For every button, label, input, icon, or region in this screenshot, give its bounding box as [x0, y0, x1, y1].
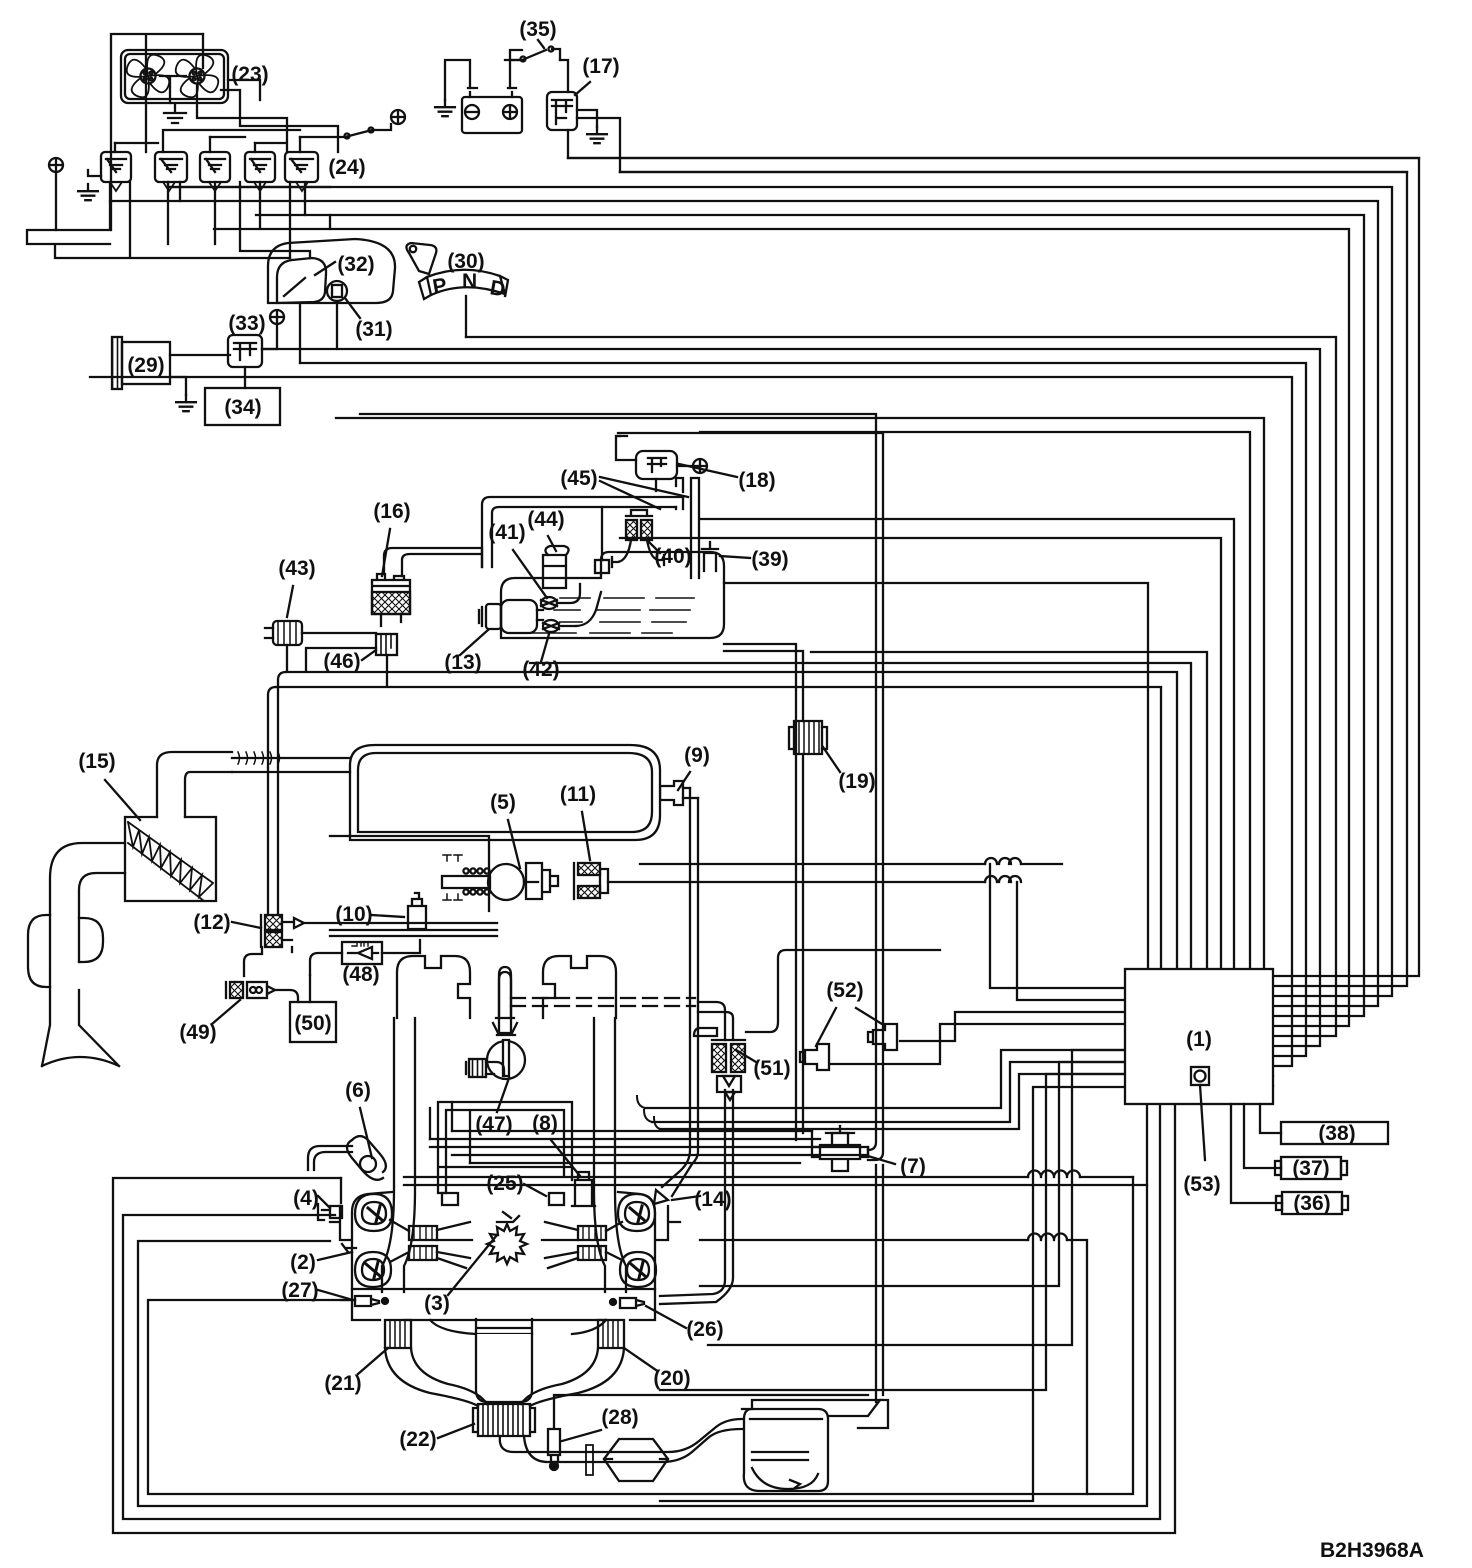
- wire relay tops to fan switch bus: [115, 130, 300, 152]
- condenser (33): [228, 335, 262, 367]
- svg-text:(18): (18): [738, 469, 775, 492]
- svg-text:(51): (51): [753, 1057, 790, 1080]
- wire (29) wiring: [170, 355, 230, 395]
- leader line (6): [360, 1108, 372, 1158]
- wire harness-right-10: [90, 377, 1292, 1066]
- diagnostic connector (53) symbol: [1191, 1067, 1209, 1085]
- wire harness-right-11: [336, 418, 1273, 1076]
- svg-text:(46): (46): [323, 650, 360, 673]
- leader line (52) a: [816, 1008, 836, 1046]
- canister (16): [372, 592, 410, 614]
- svg-text:(34): (34): [224, 396, 261, 419]
- leader line (12): [232, 922, 261, 928]
- knock sensor (4): [318, 1178, 342, 1220]
- svg-text:(33): (33): [228, 312, 265, 335]
- drain valve (46): [376, 634, 397, 655]
- svg-text:(9): (9): [684, 744, 710, 767]
- leader line (45)b: [600, 481, 660, 509]
- intake manifold plenum left half: [397, 956, 470, 1018]
- wire harness-bottom-4: [148, 1177, 1133, 1494]
- leader line (17): [575, 82, 590, 95]
- leader line (53): [1200, 1085, 1205, 1160]
- ignition coil pack right: [578, 1226, 606, 1260]
- svg-text:(24): (24): [328, 156, 365, 179]
- rollover valve (44): [543, 546, 569, 588]
- svg-text:(41): (41): [488, 521, 525, 544]
- wire (33) wiring: [245, 324, 277, 388]
- wire harness-top-1: [724, 583, 1148, 969]
- wire throttle-ecu-1: [640, 864, 1125, 988]
- small valve hanging on vent pipe: [595, 560, 609, 573]
- vent pipe vertical right: [691, 478, 699, 578]
- connector (37): [1281, 1157, 1341, 1179]
- svg-text:(11): (11): [560, 783, 596, 806]
- svg-text:(13): (13): [444, 651, 481, 674]
- exhaust resonator bulb: [28, 915, 103, 987]
- wire 52-pipes right-up: [645, 1050, 1125, 1129]
- fuel pump (13): [501, 600, 537, 633]
- relay (24)-1: [101, 152, 131, 182]
- leader line (39): [720, 556, 750, 558]
- right intake runner: [594, 1018, 626, 1292]
- leader line (45): [600, 477, 688, 497]
- wire (51) riser to EGR pipe: [698, 1002, 733, 1040]
- pressure sources switching solenoid (18): [636, 451, 677, 479]
- leader line (9): [678, 772, 690, 790]
- wire ecu-leftdown-1: [708, 1050, 1125, 1345]
- wire relay left feed: [56, 170, 101, 230]
- wire harness-right-6: [330, 229, 1349, 1026]
- wire ecu-left from (52) upper: [900, 1012, 1125, 1041]
- camshaft sprocket (3): [487, 1224, 527, 1264]
- wire (31)(32) outputs: [300, 301, 337, 363]
- battery-positive symbol 33 plus: [270, 310, 284, 324]
- ground 29 ground: [176, 395, 196, 411]
- leader line (20): [624, 1348, 656, 1370]
- wire pipe (7) down to rear canister: [876, 1165, 883, 1402]
- intake chamber: [350, 745, 660, 840]
- leader line (40): [648, 541, 660, 553]
- pressure exchange valve (7): [812, 1133, 868, 1171]
- wire fan2 to relay5: [197, 34, 287, 152]
- noise filter (34): [205, 388, 280, 425]
- svg-text:(35): (35): [519, 18, 556, 41]
- wire left loop to manifold: [244, 947, 262, 976]
- wire harness-top-2: [1160, 688, 1162, 969]
- leader line (19): [823, 747, 840, 772]
- wire harness-top-3: [1176, 674, 1178, 969]
- cylinder head right: [618, 1192, 680, 1289]
- svg-text:(48): (48): [342, 963, 379, 986]
- leader line (10): [372, 915, 404, 917]
- wire ecu-leftdown-3: [660, 1074, 1125, 1390]
- wire harness-top-7: [700, 519, 1234, 969]
- battery-positive symbol battery-feed left: [49, 158, 63, 172]
- leader line (2): [318, 1252, 352, 1260]
- svg-text:(47): (47): [475, 1113, 512, 1136]
- left intake runner: [382, 1018, 415, 1292]
- warning lamp (31): [327, 281, 347, 301]
- svg-text:(1): (1): [1186, 1028, 1212, 1051]
- vapor valves (40): [626, 520, 637, 540]
- leader line (28): [562, 1430, 601, 1441]
- distributor cap right-lower: [620, 1252, 656, 1287]
- battery-positive symbol 18 plus: [693, 459, 707, 473]
- purge control solenoid valve (51): [712, 1044, 726, 1072]
- leader line (43): [287, 586, 293, 617]
- wire engine-bus-2: [404, 1184, 1147, 1186]
- check valve (41): [541, 597, 557, 609]
- wire harness-bottom-3: [138, 1104, 1147, 1506]
- wire (12) risers to buses: [268, 672, 286, 915]
- wire exhaust pipe from (22) to rear: [500, 1419, 742, 1462]
- leader line (22): [438, 1424, 474, 1438]
- fuel vent pipe loop: [482, 497, 683, 567]
- svg-text:(16): (16): [373, 500, 410, 523]
- wire engine harness bus lines: [430, 1131, 868, 1163]
- svg-text:(26): (26): [686, 1318, 723, 1341]
- wire (12) connections: [292, 923, 497, 952]
- battery: [462, 97, 522, 133]
- wire (51) flag riser: [746, 950, 940, 1032]
- wire harness-right-12: [700, 432, 1273, 1086]
- throttle position sensor linkage: [526, 863, 558, 899]
- wire throttle-ecu-2: [608, 882, 1125, 1000]
- leader line (44): [548, 536, 556, 551]
- ignition coil pack left: [409, 1226, 437, 1260]
- wire canister loop to bus: [276, 645, 1177, 687]
- mount foot (25): [549, 1193, 564, 1205]
- wire harness-bottom-2: [123, 1104, 1160, 1519]
- svg-text:(50): (50): [294, 1012, 331, 1035]
- spark plug wire sensor (6): [360, 1156, 376, 1172]
- svg-text:(43): (43): [278, 557, 315, 580]
- check valve (48): [342, 942, 382, 964]
- wire harness-bottom-1: [113, 1104, 1175, 1533]
- wire (48) loop: [310, 940, 420, 975]
- exhaust resonator (20): [598, 1320, 624, 1348]
- wire fuel-pipe-B from (18) area down to valve (7): [360, 414, 883, 1160]
- check valve (42): [543, 620, 559, 632]
- svg-text:(12): (12): [193, 911, 230, 934]
- oxygen sensor (27): [355, 1296, 379, 1306]
- ground battery ground: [435, 100, 455, 116]
- distributor cap left-upper: [355, 1194, 392, 1231]
- wire ECU bottom to (38): [1260, 1104, 1281, 1133]
- leader line (41): [513, 550, 547, 598]
- wire harness-right-5: [256, 215, 1364, 1016]
- hose (6) loop left: [308, 1146, 352, 1170]
- wire harness-right-1: [568, 158, 1419, 976]
- intake manifold plenum right half: [543, 956, 616, 1018]
- svg-text:(23): (23): [231, 63, 268, 86]
- rear muffler hexagon: [604, 1439, 668, 1481]
- wire (17) wiring: [568, 110, 620, 172]
- spark plug wires right: [542, 1222, 622, 1268]
- engine crankcase: [352, 1289, 655, 1320]
- wire (9) into EGR pipe: [683, 788, 698, 798]
- relay (24)-3: [200, 152, 230, 182]
- wire ecu-leftdown-4: [660, 1087, 1125, 1501]
- oxygen sensor (26): [620, 1298, 644, 1308]
- leader line (18): [679, 464, 737, 477]
- radiator fan assembly (23): [121, 50, 228, 103]
- lower collector box: [438, 1102, 572, 1193]
- wire harness-right-9: [300, 363, 1306, 1056]
- battery-positive symbol ign-feed: [391, 110, 405, 124]
- wire switch to (17): [510, 50, 568, 92]
- svg-text:(27): (27): [281, 1279, 318, 1302]
- leader line (16): [382, 529, 390, 576]
- relay (24)-4: [245, 152, 275, 182]
- leader line (13): [460, 630, 488, 655]
- leader line (52) b: [856, 1008, 882, 1024]
- distributor cap left-lower: [355, 1252, 391, 1287]
- in-tank pipes: [537, 584, 580, 626]
- svg-text:(31): (31): [355, 318, 392, 341]
- svg-text:(7): (7): [900, 1155, 926, 1178]
- wire engine-bus-1: [404, 1176, 1133, 1178]
- leader line (5): [508, 820, 520, 868]
- leader line (21): [358, 1348, 388, 1374]
- svg-text:(30): (30): [447, 250, 484, 273]
- svg-text:(15): (15): [78, 750, 115, 773]
- leader line (11): [582, 812, 590, 860]
- air cleaner (15): [157, 752, 232, 817]
- wire (40) pipes: [612, 540, 664, 567]
- chamber base plate: [330, 836, 497, 936]
- leader line (26): [646, 1306, 686, 1328]
- exhaust downpipes joining: [385, 1348, 624, 1406]
- leader line (42): [541, 634, 549, 662]
- throttle body (5): [488, 864, 524, 900]
- cylinder head left: [330, 1192, 392, 1289]
- fuel level lines: [526, 598, 694, 633]
- radio/noise suppressor (29): [112, 337, 122, 389]
- oil filler / dipstick: [499, 967, 511, 1018]
- data link connector (38): [1281, 1122, 1388, 1144]
- leader line (31): [345, 298, 360, 318]
- leader line (46): [362, 650, 376, 660]
- svg-text:(3): (3): [424, 1292, 450, 1315]
- svg-text:N: N: [462, 270, 477, 293]
- svg-text:(32): (32): [337, 253, 374, 276]
- svg-text:(44): (44): [527, 508, 564, 531]
- ECU (1): [1125, 969, 1273, 1104]
- leader line (3): [448, 1235, 497, 1295]
- svg-text:(38): (38): [1318, 1122, 1355, 1145]
- relay (24)-2: [155, 152, 187, 182]
- leader line (32): [315, 262, 335, 275]
- pressure sensor (47): [497, 972, 515, 1035]
- ground fan ground: [164, 105, 186, 123]
- wire harness-top-6: [620, 538, 1221, 969]
- svg-text:(45): (45): [560, 467, 597, 490]
- wire harness-right-7: [466, 337, 1336, 1036]
- leader line (27): [318, 1290, 353, 1300]
- ground relay ground: [78, 184, 98, 200]
- wire harness-top-4: [530, 663, 1191, 969]
- wire line from (18) up-left: [618, 435, 620, 437]
- fuel filler vent (39): [702, 542, 718, 571]
- wire harness-right-4: [110, 201, 1378, 1006]
- coolant temp sensor (2): [342, 1244, 356, 1252]
- wire (30) output: [465, 296, 467, 337]
- wire ECU bottom to (37): [1244, 1104, 1281, 1168]
- svg-text:(29): (29): [127, 354, 164, 377]
- svg-text:(6): (6): [345, 1079, 371, 1102]
- leader line (14): [672, 1196, 700, 1200]
- EGR solenoid (49): [230, 982, 243, 998]
- leader line (47): [497, 1078, 509, 1112]
- instrument cluster (32): [268, 239, 395, 303]
- wire ecu-left from (52) lower: [831, 1024, 1125, 1064]
- wire (49)(50) plumbing: [275, 975, 310, 1002]
- svg-text:(25): (25): [486, 1172, 523, 1195]
- relay (24)-5: [285, 152, 318, 182]
- leader line (4): [318, 1196, 330, 1208]
- ground relay-17 ground: [587, 127, 607, 143]
- svg-text:(37): (37): [1292, 1157, 1329, 1180]
- svg-text:(2): (2): [290, 1251, 316, 1274]
- svg-text:(4): (4): [293, 1187, 319, 1210]
- vacuum reservoir (50): [290, 1002, 336, 1042]
- catalytic converter (22): [473, 1404, 535, 1436]
- svg-text:(36): (36): [1293, 1192, 1330, 1215]
- leader line (49): [212, 1000, 240, 1024]
- leader line (51): [736, 1050, 756, 1062]
- svg-text:(5): (5): [490, 791, 516, 814]
- svg-text:(19): (19): [838, 770, 875, 793]
- tank vent nipple (9) on intake chamber: [660, 781, 683, 805]
- svg-text:(17): (17): [582, 55, 619, 78]
- wire fuel-pipe-A (19) feed: [724, 644, 803, 1140]
- rear oxygen sensor (28): [548, 1395, 868, 1462]
- mount foot left: [442, 1193, 458, 1205]
- distributor cap right-upper: [618, 1194, 655, 1231]
- exhaust inlet snorkel: [42, 843, 125, 1066]
- fuel tank: [501, 552, 724, 638]
- relay bottom connector marks: [110, 182, 308, 191]
- wire fan box to relay row: [221, 80, 338, 152]
- svg-text:(40): (40): [654, 545, 691, 568]
- svg-text:(20): (20): [653, 1367, 690, 1390]
- svg-text:(53): (53): [1183, 1173, 1220, 1196]
- wire harness-right-3: [168, 187, 1392, 996]
- FICD solenoid (10): [408, 893, 426, 929]
- svg-text:(21): (21): [324, 1372, 361, 1395]
- wire relay interconnects: [27, 182, 330, 258]
- svg-text:(22): (22): [399, 1428, 436, 1451]
- wire harness-right-2: [620, 172, 1407, 986]
- wire vert pipe to (51): [660, 1090, 733, 1304]
- svg-text:(14): (14): [694, 1188, 731, 1211]
- leader line (8): [551, 1140, 580, 1176]
- inhibitor switch (30): [406, 243, 436, 274]
- wire fan wiring top loop: [111, 34, 203, 230]
- wire canister top pipes: [384, 548, 482, 576]
- vacuum connectors (52): [800, 1044, 829, 1070]
- leader line (15): [105, 780, 140, 820]
- wire (18) wiring: [616, 436, 693, 491]
- purge solenoid (12): [265, 915, 282, 930]
- dashed crossover line: [511, 997, 695, 999]
- wire engine-bus-3: [700, 1240, 1087, 1494]
- spark plug wires left: [390, 1220, 472, 1268]
- exhaust resonator (21): [385, 1320, 411, 1348]
- corrugated intake hose: [232, 758, 350, 772]
- wire harness-top-5: [811, 652, 1207, 969]
- wire ecu-leftdown-2: [700, 1062, 1125, 1286]
- wire harness-right-8: [262, 349, 1320, 1046]
- svg-text:(39): (39): [751, 548, 788, 571]
- idle air solenoid (11): [578, 863, 600, 875]
- connector (36): [1282, 1192, 1342, 1214]
- leader line (7): [868, 1156, 895, 1164]
- svg-text:B2H3968A: B2H3968A: [1320, 1539, 1424, 1562]
- rear catalyst canister: [742, 1409, 828, 1491]
- wire (27) stub: [341, 1299, 355, 1301]
- leader line (25): [524, 1184, 546, 1196]
- injector (8): [572, 1172, 595, 1206]
- svg-text:(52): (52): [826, 979, 863, 1002]
- purge control motor (43): [273, 621, 302, 645]
- EGR pipe (14): [662, 788, 698, 1196]
- wire battery wiring: [445, 60, 522, 100]
- fuel filter (19): [794, 721, 822, 754]
- fusible link switch: [300, 124, 391, 137]
- ignition relay (17): [547, 92, 577, 130]
- svg-text:(28): (28): [601, 1406, 638, 1429]
- wire ECU bottom to (36): [1231, 1104, 1282, 1203]
